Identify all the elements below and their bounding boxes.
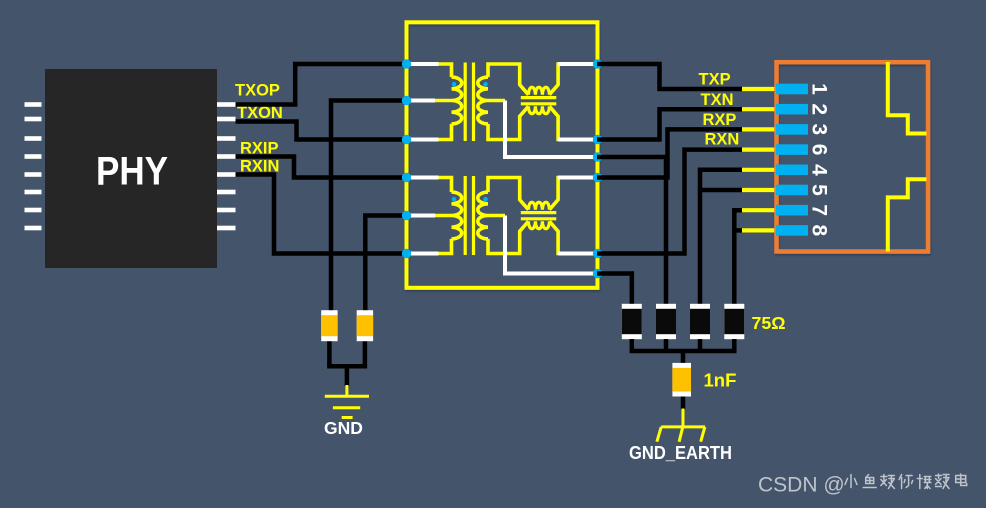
wire choke top out T1 (white) (558, 62, 597, 66)
wire C3 bottom lead (681, 397, 686, 410)
resistor R4 75ohm (724, 304, 744, 339)
svg-text:7: 7 (808, 204, 831, 216)
node left bot T1 (402, 135, 411, 144)
wire primary bottom lead T1 (white) (405, 138, 439, 142)
svg-text:TXOP: TXOP (235, 82, 280, 100)
svg-text:1nF: 1nF (704, 370, 737, 391)
wire pin8 join (734, 228, 742, 233)
capacitor C3 1nF (672, 363, 691, 397)
svg-text:CSDN @: CSDN @ (758, 474, 845, 497)
wire primary top lead T2 (439, 178, 452, 193)
wire primary center tap T2 (white) (405, 214, 435, 218)
svg-text:5: 5 (808, 184, 831, 196)
svg-text:6: 6 (808, 144, 831, 156)
PHY right pins (217, 102, 236, 230)
node right top T1 (593, 59, 602, 68)
wire TXON (236, 122, 407, 140)
primary winding T2 (452, 192, 462, 239)
resistor R2 75ohm (656, 304, 676, 339)
polarity dot secondary T2 (483, 197, 488, 202)
wire primary center tap T1 (white) (405, 99, 435, 103)
resistor R3 75ohm (690, 304, 710, 339)
wire secondary center tap T1 (488, 99, 505, 103)
wire GND lead (345, 385, 348, 396)
svg-text:4: 4 (808, 164, 831, 176)
capacitor C1 (321, 310, 337, 341)
wire secondary top lead T2 (488, 178, 528, 210)
svg-text:GND: GND (324, 418, 363, 438)
wire center-tap T1 to C1 (331, 101, 406, 312)
svg-text:2: 2 (808, 103, 831, 115)
wire C2 lead (363, 341, 368, 366)
wire RXIP (236, 157, 407, 178)
ground GND (325, 396, 369, 417)
wire primary center tap T1 (435, 99, 452, 103)
polarity dot primary T1 (452, 82, 457, 87)
wire pin4 to R3 (700, 170, 742, 304)
node left mid T2 (402, 211, 411, 220)
wire TXP (597, 64, 742, 89)
wire secondary center tap T2 (white) (505, 216, 597, 274)
wire primary top lead T1 (white) (405, 62, 439, 66)
PHY chip U1 (45, 69, 217, 268)
wire secondary top lead T1 (488, 64, 528, 95)
node left top T2 (402, 173, 411, 182)
svg-text:75Ω: 75Ω (752, 313, 786, 333)
RJ45 pin numbers (808, 83, 831, 236)
choke core T1 (521, 98, 557, 104)
wire RXIN (236, 175, 407, 254)
wire choke bottom out T2 (white) (558, 252, 597, 256)
primary winding T1 (452, 77, 462, 124)
secondary winding T2 (478, 192, 488, 239)
choke top winding T1 (528, 87, 549, 94)
magnetics module box (407, 22, 598, 288)
node right ct T1 (593, 152, 602, 161)
wire choke top out T2 (549, 178, 560, 210)
wire primary bottom lead T1 (439, 124, 452, 140)
wire primary center tap T2 (435, 214, 452, 218)
wire secondary bottom lead T1 (488, 106, 528, 139)
wire resistor bus (630, 339, 737, 364)
transformer core T2 (465, 176, 473, 255)
node right top T2 (593, 173, 602, 182)
svg-text:RXN: RXN (705, 131, 740, 149)
choke bottom winding T2 (528, 221, 549, 229)
wire choke bottom out T2 (549, 221, 560, 253)
wire pin7 to R4 (734, 210, 742, 304)
wire choke top out T1 (549, 64, 560, 95)
svg-text:TXP: TXP (699, 71, 731, 89)
node right bot T1 (593, 135, 602, 144)
node right bot T2 (593, 249, 602, 258)
wire GND bus (327, 366, 367, 386)
wire choke bottom out T1 (549, 106, 560, 139)
wire pin5 join (700, 188, 742, 193)
watermark CJK glyphs (845, 474, 967, 489)
choke core T2 (521, 213, 557, 219)
svg-text:GND_EARTH: GND_EARTH (629, 443, 732, 463)
wire choke bottom out T1 (white) (558, 138, 597, 142)
wire TXN (597, 109, 742, 139)
wire C1 lead (327, 341, 332, 366)
choke bottom winding T1 (528, 106, 549, 114)
node left top T1 (402, 59, 411, 68)
svg-text:PHY: PHY (96, 150, 168, 194)
wire sec-ct T2 to R1 (597, 274, 632, 305)
wire primary top lead T2 (white) (405, 176, 439, 180)
svg-text:8: 8 (808, 225, 831, 237)
polarity dot secondary T1 (483, 82, 488, 87)
wire TXOP (236, 64, 407, 105)
resistor R1 75ohm (622, 304, 642, 339)
wire earth lead (682, 409, 685, 429)
wire secondary center tap T1 (white) (505, 101, 597, 158)
node left mid T1 (402, 96, 411, 105)
wire secondary center tap T2 (488, 214, 505, 218)
wire choke top out T2 (white) (558, 176, 597, 180)
earth ground GND_EARTH (657, 427, 705, 442)
RJ45 connector J1 body (777, 62, 929, 251)
node right ct T2 (593, 269, 602, 278)
capacitor C2 (357, 310, 373, 341)
wire primary bottom lead T2 (439, 239, 452, 254)
PHY left pins (25, 102, 42, 230)
transformer core T1 (465, 63, 473, 142)
svg-text:RXP: RXP (703, 111, 737, 129)
RJ45 pin bars (776, 84, 808, 236)
svg-text:3: 3 (808, 124, 831, 136)
svg-text:1: 1 (808, 83, 831, 95)
wire center-tap T2 to C2 (365, 216, 406, 312)
polarity dot primary T2 (452, 197, 457, 202)
choke top winding T2 (528, 202, 549, 209)
wire RXP (597, 129, 742, 177)
node left bot T2 (402, 249, 411, 258)
RJ45 pin stubs (742, 89, 777, 230)
wire sec-ct T1 to R2 (597, 157, 666, 304)
wire RXN (597, 150, 742, 254)
svg-text:TXN: TXN (701, 91, 734, 109)
wire primary top lead T1 (439, 64, 452, 77)
secondary winding T1 (478, 77, 488, 124)
RJ45 jack key outline (888, 62, 927, 252)
wire primary bottom lead T2 (white) (405, 252, 439, 256)
wire secondary bottom lead T2 (488, 221, 528, 253)
